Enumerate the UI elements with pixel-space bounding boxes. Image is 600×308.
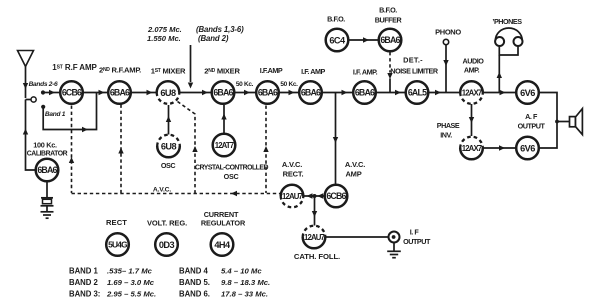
svg-text:6BA6: 6BA6 bbox=[355, 88, 375, 98]
wire calibrator to crystal bbox=[46, 182, 48, 197]
wire cathode follower drop bbox=[312, 196, 317, 226]
band coverage table bbox=[69, 267, 270, 299]
svg-text:12AU7: 12AU7 bbox=[304, 233, 325, 242]
svg-text:I.F. AMP: I.F. AMP bbox=[301, 67, 325, 76]
svg-text:2ND R.F.AMP.: 2ND R.F.AMP. bbox=[99, 66, 141, 75]
svg-text:6BA6: 6BA6 bbox=[301, 88, 321, 98]
label A.V.C. RECT bbox=[282, 160, 304, 179]
tube 12AU7 cathode follower bbox=[303, 226, 326, 249]
svg-text:A.V.C.: A.V.C. bbox=[282, 160, 302, 169]
tube 6V6 AF output upper bbox=[516, 81, 539, 104]
svg-text:CRYSTAL-CONTROLLED: CRYSTAL-CONTROLLED bbox=[195, 165, 268, 172]
svg-text:BAND 4: BAND 4 bbox=[179, 267, 208, 276]
svg-text:2.95 – 5.5 Mᴄ.: 2.95 – 5.5 Mᴄ. bbox=[106, 290, 156, 299]
wire 6CB6 to 6BA6 bbox=[83, 90, 108, 95]
svg-text:12AX7: 12AX7 bbox=[462, 88, 482, 97]
tube 6BA6 3rd IF amp bbox=[353, 81, 376, 104]
tube 6BA6 calibrator bbox=[36, 159, 59, 182]
tube 6BA6 2nd IF amp bbox=[299, 81, 322, 104]
svg-text:12AU7: 12AU7 bbox=[282, 192, 303, 201]
svg-text:12AX7: 12AX7 bbox=[462, 144, 482, 153]
svg-text:REGULATOR: REGULATOR bbox=[201, 219, 246, 228]
wire 6BA6 to 6U8 mixer bbox=[131, 90, 156, 95]
svg-text:6V6: 6V6 bbox=[520, 143, 535, 153]
tube 12AX7 phase inverter bbox=[460, 137, 483, 160]
svg-text:VOLT. REG.: VOLT. REG. bbox=[147, 219, 187, 228]
tube 6V6 AF output lower bbox=[516, 137, 539, 160]
label A.V.C. AMP bbox=[345, 160, 365, 179]
tube 6BA6 2nd mixer bbox=[212, 81, 235, 104]
svg-text:6V6: 6V6 bbox=[520, 88, 535, 98]
svg-text:BAND 5.: BAND 5. bbox=[179, 278, 210, 287]
tube 6BA6 2nd RF amp bbox=[108, 81, 131, 104]
wire 100 Kc calibrator feed bbox=[23, 100, 36, 171]
wire Band 1 bypass bbox=[43, 93, 96, 132]
AVC dashed riser to 1st mixer bbox=[178, 102, 198, 194]
wire 12AT7 riser bbox=[221, 105, 226, 134]
svg-text:17.8 – 33 Mᴄ.: 17.8 – 33 Mᴄ. bbox=[221, 290, 268, 299]
ground calibrator bbox=[41, 212, 54, 218]
svg-text:9.8 – 18.3 Mᴄ.: 9.8 – 18.3 Mᴄ. bbox=[221, 278, 270, 287]
svg-text:I.F.AMP: I.F.AMP bbox=[260, 66, 283, 75]
wire crystal frequency injection bbox=[188, 45, 193, 89]
wire phono drop bbox=[443, 45, 448, 92]
svg-text:INV.: INV. bbox=[440, 131, 452, 140]
svg-text:AMP.: AMP. bbox=[464, 66, 480, 75]
svg-text:6BA6: 6BA6 bbox=[380, 35, 400, 45]
wire AVC rect to AVC amp bbox=[304, 193, 325, 198]
svg-text:I. F: I. F bbox=[410, 228, 420, 237]
label CRYSTAL-CONTROLLED OSC bbox=[195, 165, 268, 181]
svg-text:(Band 2): (Band 2) bbox=[198, 34, 229, 43]
AVC dashed riser to 2nd RF amp bbox=[118, 105, 123, 194]
svg-text:RECT.: RECT. bbox=[283, 170, 304, 179]
label B.F.O. BUFFER bbox=[375, 6, 403, 25]
tube 12AX7 audio amp bbox=[460, 81, 483, 104]
svg-text:1.69 – 3.0 Mᴄ: 1.69 – 3.0 Mᴄ bbox=[107, 278, 155, 287]
svg-text:DET.-: DET.- bbox=[403, 56, 423, 65]
crystal of calibrator bbox=[41, 198, 54, 212]
wire 12AX7 to 6V6 bbox=[483, 90, 516, 95]
tube 6BA6 1st IF amp bbox=[256, 81, 279, 104]
svg-text:AMP: AMP bbox=[345, 170, 361, 179]
tube 0D3 voltage regulator bbox=[155, 233, 178, 256]
svg-text:2ND MIXER: 2ND MIXER bbox=[204, 67, 240, 76]
svg-text:OSC: OSC bbox=[224, 172, 239, 181]
svg-text:100 Kᴄ.: 100 Kᴄ. bbox=[33, 141, 57, 150]
AVC dashed riser to 1st IF amp bbox=[263, 106, 268, 194]
wire audio amp to phase inverter bbox=[469, 104, 474, 136]
label AUDIO AMP bbox=[463, 57, 485, 75]
svg-text:6CB6: 6CB6 bbox=[326, 191, 346, 201]
svg-text:Bands 2-6: Bands 2-6 bbox=[29, 81, 58, 88]
svg-text:0D3: 0D3 bbox=[159, 240, 175, 250]
svg-text:I.F. AMP.: I.F. AMP. bbox=[353, 68, 378, 77]
svg-text:12AT7: 12AT7 bbox=[215, 141, 234, 150]
wire phones drop bbox=[497, 55, 502, 92]
label A.F OUTPUT bbox=[518, 112, 546, 131]
svg-text:PHASE: PHASE bbox=[437, 121, 460, 130]
svg-text:BAND 6.: BAND 6. bbox=[179, 290, 210, 299]
wire phase inverter to 6V6 bbox=[483, 145, 516, 150]
wire antenna to band switch pole bbox=[26, 99, 31, 101]
tube 6BA6 BFO buffer bbox=[379, 29, 402, 52]
tube 6AL5 det noise limiter bbox=[406, 81, 429, 104]
svg-text:6BA6: 6BA6 bbox=[213, 88, 233, 98]
svg-text:AUDIO: AUDIO bbox=[463, 57, 485, 66]
tube 5U4G rectifier bbox=[106, 233, 129, 256]
label CURRENT REGULATOR bbox=[201, 210, 246, 228]
svg-text:.535– 1.7 Mᴄ: .535– 1.7 Mᴄ bbox=[107, 267, 153, 276]
svg-text:6U8: 6U8 bbox=[160, 88, 176, 98]
AVC bus dashed wire bbox=[72, 191, 281, 196]
phono jack bbox=[443, 39, 448, 44]
tube 12AT7 crystal osc bbox=[213, 134, 236, 157]
svg-text:B.F.O.: B.F.O. bbox=[327, 15, 345, 24]
svg-text:6U8: 6U8 bbox=[161, 141, 177, 151]
svg-text:6BA6: 6BA6 bbox=[37, 165, 57, 175]
svg-text:6AL5: 6AL5 bbox=[408, 88, 427, 98]
tube 6U8 1st mixer bbox=[157, 81, 180, 104]
svg-text:6C4: 6C4 bbox=[329, 35, 346, 45]
svg-text:BAND 2: BAND 2 bbox=[69, 278, 98, 287]
wire contact to 6CB6 bbox=[43, 90, 59, 95]
wire 2nd mixer to 1st IF amp bbox=[235, 90, 256, 95]
wire 6C4 to BFO buffer bbox=[349, 37, 378, 42]
AVC dashed riser to 6CB6 bbox=[69, 106, 74, 194]
wire 1st IF to 2nd IF amp bbox=[279, 90, 299, 95]
wire AVC amp riser bbox=[333, 93, 338, 185]
svg-text:1ST R.F AMP: 1ST R.F AMP bbox=[52, 63, 97, 72]
headphones bbox=[495, 28, 522, 55]
wire 6U8 to 2nd mixer bbox=[180, 90, 212, 95]
wire 3rd IF to 6AL5 bbox=[376, 90, 406, 95]
tube 12AU7 AVC rect bbox=[281, 185, 304, 208]
label DET NOISE LIMITER bbox=[390, 56, 439, 76]
svg-text:50 Kᴄ.: 50 Kᴄ. bbox=[236, 81, 254, 88]
svg-text:4H4: 4H4 bbox=[214, 240, 231, 250]
ground IF output bbox=[387, 243, 401, 258]
svg-text:’PHONES: ’PHONES bbox=[492, 17, 522, 26]
svg-text:1ST MIXER: 1ST MIXER bbox=[151, 67, 186, 76]
svg-text:6BA6: 6BA6 bbox=[258, 88, 278, 98]
band switch contact Band 1 bbox=[41, 105, 45, 109]
svg-text:OUTPUT: OUTPUT bbox=[518, 122, 546, 131]
svg-text:OUTPUT: OUTPUT bbox=[403, 237, 431, 246]
svg-text:6BA6: 6BA6 bbox=[110, 88, 130, 98]
IF output jack bbox=[389, 232, 400, 243]
svg-text:A.V.C.: A.V.C. bbox=[345, 160, 365, 169]
wire 6U8 osc riser bbox=[166, 105, 171, 135]
svg-text:1.550 Mᴄ.: 1.550 Mᴄ. bbox=[147, 34, 181, 43]
svg-text:BAND 3:: BAND 3: bbox=[69, 290, 100, 299]
svg-text:2.075 Mᴄ.: 2.075 Mᴄ. bbox=[147, 25, 182, 34]
wire 6AL5 to 12AX7 bbox=[429, 90, 460, 95]
svg-text:CATH. FOLL.: CATH. FOLL. bbox=[294, 252, 340, 261]
svg-text:BUFFER: BUFFER bbox=[375, 15, 403, 24]
label I.F OUTPUT bbox=[403, 228, 431, 247]
svg-text:A. F: A. F bbox=[525, 112, 538, 121]
tube 6CB6 1st RF amp bbox=[60, 81, 83, 104]
svg-text:50 Kᴄ.: 50 Kᴄ. bbox=[280, 81, 298, 88]
band switch contact Bands 2-6 bbox=[41, 90, 45, 94]
svg-text:RECT: RECT bbox=[106, 218, 127, 227]
wire 6V6 outputs to speaker bbox=[539, 93, 569, 149]
svg-text:A.V.C.: A.V.C. bbox=[153, 187, 172, 194]
svg-text:NOISE LIMITER: NOISE LIMITER bbox=[390, 67, 439, 76]
svg-text:5.4 – 10 Mᴄ: 5.4 – 10 Mᴄ bbox=[221, 267, 262, 276]
svg-text:6CB6: 6CB6 bbox=[62, 88, 82, 98]
wire 2nd IF to 3rd IF amp bbox=[322, 90, 353, 95]
tube 6C4 BFO bbox=[326, 29, 349, 52]
tube 4H4 current regulator bbox=[211, 233, 234, 256]
svg-text:Band 1: Band 1 bbox=[45, 111, 66, 118]
tube 6U8 oscillator bbox=[157, 135, 180, 158]
tube 6CB6 AVC amp bbox=[325, 185, 348, 208]
label 100 Kc CALIBRATOR bbox=[27, 141, 68, 158]
svg-text:PHONO: PHONO bbox=[435, 28, 461, 37]
svg-text:BAND 1: BAND 1 bbox=[69, 267, 98, 276]
label crystal frequencies bbox=[147, 25, 244, 43]
antenna bbox=[18, 51, 34, 99]
svg-text:OSC: OSC bbox=[161, 161, 175, 170]
wire cath follower to IF output jack bbox=[326, 236, 389, 238]
band switch pole bbox=[31, 97, 36, 102]
wire BFO buffer drop bbox=[387, 52, 392, 93]
svg-text:5U4G: 5U4G bbox=[108, 240, 127, 250]
svg-text:(Bands 1,3-6): (Bands 1,3-6) bbox=[196, 25, 244, 34]
speaker bbox=[570, 109, 583, 135]
svg-text:B.F.O.: B.F.O. bbox=[379, 6, 397, 15]
svg-text:CALIBRATOR: CALIBRATOR bbox=[27, 150, 68, 157]
label PHASE INV bbox=[437, 121, 460, 140]
